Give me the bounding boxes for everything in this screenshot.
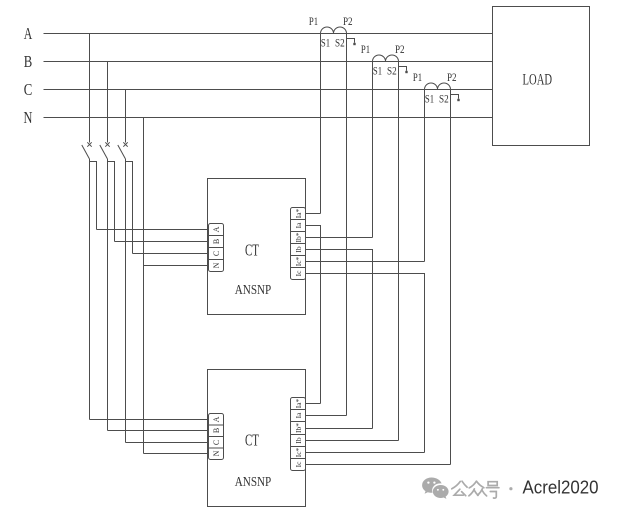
svg-text:C: C	[24, 80, 33, 99]
svg-text:Ia: Ia	[294, 412, 303, 418]
svg-text:Ib*: Ib*	[294, 423, 303, 433]
svg-text:S1: S1	[425, 93, 434, 105]
svg-text:Ib: Ib	[294, 437, 303, 443]
meter U1 terminal label Ic	[294, 270, 303, 276]
svg-text:P2: P2	[343, 16, 353, 28]
CT3 label P1	[413, 72, 422, 84]
wire CT2 S2 lead down	[398, 62, 400, 441]
wire meter2 Ib to CT2 S2	[306, 440, 399, 442]
wire tap from phase A	[89, 34, 91, 143]
CT3 label S1	[425, 93, 434, 105]
CT2 polarity hook	[399, 67, 408, 74]
meter U1 terminal label Ia*	[294, 208, 303, 218]
wire meter2 A input	[90, 419, 210, 421]
meter U1 terminal label B	[212, 239, 221, 244]
meter U2 box ANSNP	[208, 370, 306, 507]
CT1 label P2	[343, 16, 353, 28]
watermark text 众	[469, 481, 487, 496]
wire tap from phase B	[107, 62, 109, 143]
svg-text:C: C	[212, 440, 221, 445]
svg-text:C: C	[212, 251, 221, 256]
svg-text:LOAD: LOAD	[523, 72, 553, 89]
wire meter1 Ia to meter2 Ia*	[306, 226, 321, 404]
svg-text:S2: S2	[335, 37, 345, 49]
svg-text:CT: CT	[245, 240, 259, 259]
wire phase bus N	[44, 117, 493, 119]
svg-text:N: N	[212, 450, 221, 456]
meter U2 terminal label Ic	[294, 461, 303, 467]
wire branch jog to meter1	[90, 162, 97, 230]
svg-text:Ia*: Ia*	[294, 208, 303, 218]
svg-text:ANSNP: ANSNP	[235, 475, 272, 490]
meter U1 terminal label C	[212, 251, 221, 256]
CT3 label P2	[447, 72, 457, 84]
CT1 label S1	[321, 37, 330, 49]
switch QB contact x	[105, 142, 109, 146]
svg-text:B: B	[212, 239, 221, 244]
CT2 label P2	[395, 44, 405, 56]
svg-text:Ic: Ic	[294, 461, 303, 467]
meter U1 terminal label Ia	[294, 222, 303, 228]
svg-text:S1: S1	[373, 65, 382, 77]
svg-text:P2: P2	[395, 44, 405, 56]
wire tap from phase C	[125, 90, 127, 143]
CT2 label S1	[373, 65, 382, 77]
meter U2 terminal label Ia*	[294, 398, 303, 408]
wire meter2 Ia* to meter1 Ia	[306, 403, 321, 405]
meter U2 terminal label N	[212, 450, 221, 456]
svg-text:Ib: Ib	[294, 246, 303, 252]
wire meter2 B input	[108, 430, 210, 432]
wire meter1 B input	[115, 241, 210, 243]
watermark wechat icon	[422, 478, 449, 499]
wire meter2 C input	[126, 442, 210, 444]
wire CT1 S2 lead down	[346, 34, 348, 416]
wire meter2 Ia to CT1 S2	[306, 415, 347, 417]
meter U2 terminal label Ib*	[294, 423, 303, 433]
wire meter1 Ia* to CT1 S1	[306, 213, 321, 215]
svg-text:P2: P2	[447, 72, 457, 84]
meter U2 terminal label Ib	[294, 437, 303, 443]
svg-text:ANSNP: ANSNP	[235, 283, 272, 298]
wire phase bus B	[44, 61, 493, 63]
switch QA blade	[82, 145, 90, 159]
wire phase bus A	[44, 33, 493, 35]
switch QA contact x	[87, 142, 91, 146]
svg-text:A: A	[24, 24, 33, 43]
meter U1 terminal label A	[212, 226, 221, 232]
wire switch QB to meter2	[107, 159, 109, 431]
wire CT2 S1 lead down	[372, 62, 374, 238]
meter U2 left terminal block	[209, 414, 224, 460]
watermark separator dot	[509, 487, 512, 490]
switch QC contact x	[123, 142, 127, 146]
svg-text:B: B	[24, 52, 33, 71]
meter U2 terminal label Ic*	[294, 447, 303, 457]
node C label	[24, 80, 33, 99]
svg-text:Acrel2020: Acrel2020	[523, 477, 599, 498]
svg-text:Ic*: Ic*	[294, 256, 303, 266]
svg-text:Ic*: Ic*	[294, 447, 303, 457]
switch QC blade	[118, 145, 126, 159]
svg-text:S2: S2	[439, 93, 449, 105]
switch QB blade	[100, 145, 108, 159]
watermark text 公	[452, 481, 467, 496]
svg-text:B: B	[212, 428, 221, 433]
svg-text:Ic: Ic	[294, 270, 303, 276]
current transformer CT3 winding on phase C	[425, 83, 451, 90]
svg-text:P1: P1	[309, 16, 318, 28]
wire CT3 S1 lead down	[424, 90, 426, 262]
meter U1 terminal label Ib	[294, 246, 303, 252]
meter U1 terminal label Ic*	[294, 256, 303, 266]
meter U1 box ANSNP	[208, 179, 306, 315]
wire CT3 S2 lead down	[450, 90, 452, 465]
meter U2 terminal label B	[212, 428, 221, 433]
meter U2 terminal label Ia	[294, 412, 303, 418]
wire meter1 Ib to meter2 Ib*	[306, 250, 373, 429]
meter U1 right terminal block	[291, 208, 306, 280]
current transformer CT2 winding on phase B	[373, 55, 399, 61]
svg-text:CT: CT	[245, 431, 259, 450]
load box	[493, 7, 590, 146]
svg-text:P1: P1	[361, 44, 370, 56]
CT3 label S2	[439, 93, 449, 105]
svg-text:Ia*: Ia*	[294, 398, 303, 408]
wire meter1 N input	[144, 265, 210, 267]
meter U2 right terminal block	[291, 398, 306, 471]
svg-text:A: A	[212, 416, 221, 422]
CT1 label P1	[309, 16, 318, 28]
CT3 polarity hook	[451, 95, 460, 102]
wire meter2 Ib* to meter1 Ib	[306, 428, 373, 430]
wire meter1 Ib* to CT2 S1	[306, 237, 373, 239]
node N label	[24, 108, 33, 127]
svg-text:Ib*: Ib*	[294, 232, 303, 242]
wire meter1 Ic to meter2 Ic*	[306, 274, 425, 453]
svg-text:S1: S1	[321, 37, 330, 49]
node A label	[24, 24, 33, 43]
watermark text Acrel2020	[523, 477, 599, 498]
wire meter2 Ic to CT3 S2	[306, 464, 451, 466]
wire branch jog to meter1	[126, 162, 133, 254]
wire meter2 Ic* to meter1 Ic	[306, 452, 425, 454]
svg-text:P1: P1	[413, 72, 422, 84]
svg-text:N: N	[212, 262, 221, 268]
current transformer CT1 winding on phase A	[321, 27, 347, 34]
wire CT1 S1 lead down	[320, 34, 322, 214]
wire switch QC to meter2	[125, 159, 127, 443]
meter U1 terminal label N	[212, 262, 221, 268]
meter U2 terminal label A	[212, 416, 221, 422]
wire meter1 Ic* to CT3 S1	[306, 261, 425, 263]
CT1 polarity hook	[347, 39, 356, 46]
wire meter1 C input	[133, 253, 210, 255]
meter U1 left terminal block	[209, 224, 224, 272]
node B label	[24, 52, 33, 71]
CT1 label S2	[335, 37, 345, 49]
meter U2 terminal label C	[212, 440, 221, 445]
wire switch QA to meter2	[89, 159, 91, 420]
wire branch jog to meter1	[108, 162, 115, 242]
svg-text:A: A	[212, 226, 221, 232]
wire phase bus C	[44, 89, 493, 91]
CT2 label P1	[361, 44, 370, 56]
svg-text:Ia: Ia	[294, 222, 303, 228]
CT2 label S2	[387, 65, 397, 77]
wire tap from phase N down to meter2 N	[143, 118, 145, 454]
svg-text:N: N	[24, 108, 33, 127]
watermark text 号	[486, 482, 499, 498]
meter U1 terminal label Ib*	[294, 232, 303, 242]
svg-text:S2: S2	[387, 65, 397, 77]
wire meter1 A input	[97, 229, 210, 231]
wire meter2 N input	[144, 453, 210, 455]
